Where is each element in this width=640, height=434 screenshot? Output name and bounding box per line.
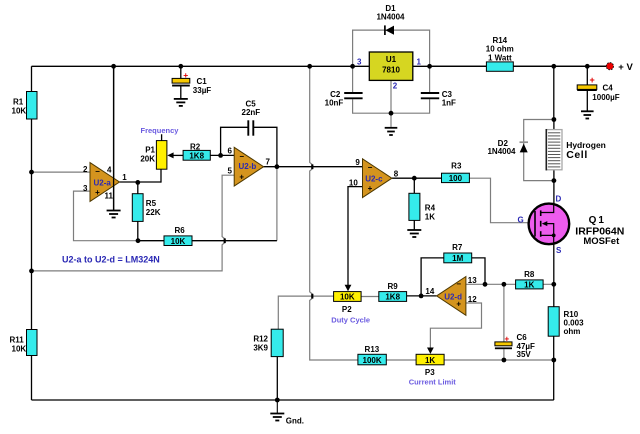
svg-text:R9: R9 (387, 282, 398, 291)
svg-text:R4: R4 (425, 203, 436, 212)
svg-text:−: − (95, 167, 100, 176)
svg-text:10K: 10K (12, 107, 27, 116)
svg-text:3K9: 3K9 (253, 344, 268, 353)
svg-text:R11: R11 (10, 336, 25, 345)
svg-text:−: − (456, 280, 461, 289)
svg-text:R2: R2 (190, 143, 201, 152)
svg-text:12: 12 (468, 295, 477, 304)
svg-text:Q1: Q1 (589, 215, 606, 226)
svg-text:13: 13 (468, 276, 477, 285)
svg-text:100K: 100K (363, 356, 382, 365)
svg-text:R13: R13 (365, 345, 380, 354)
svg-text:R1: R1 (13, 98, 24, 107)
svg-text:1K8: 1K8 (189, 151, 204, 160)
svg-text:1K: 1K (524, 280, 534, 289)
svg-text:P2: P2 (342, 305, 352, 314)
svg-text:33µF: 33µF (193, 86, 212, 95)
svg-text:10K: 10K (171, 237, 186, 246)
svg-text:5: 5 (228, 167, 233, 176)
svg-text:10K: 10K (340, 293, 355, 302)
svg-text:14: 14 (425, 287, 434, 296)
svg-text:U2-a: U2-a (94, 179, 112, 188)
svg-text:11: 11 (105, 191, 114, 200)
svg-text:U2-b: U2-b (239, 162, 257, 171)
svg-text:U2-d: U2-d (444, 292, 462, 301)
svg-text:C1: C1 (197, 77, 208, 86)
svg-text:1 Watt: 1 Watt (488, 53, 512, 62)
svg-text:Frequency: Frequency (141, 126, 180, 135)
svg-text:1: 1 (122, 173, 127, 182)
svg-text:7: 7 (266, 157, 271, 166)
svg-text:100: 100 (449, 174, 463, 183)
svg-text:4: 4 (107, 166, 112, 175)
svg-text:U2-a to U2-d = LM324N: U2-a to U2-d = LM324N (62, 255, 160, 265)
svg-text:+: + (590, 75, 595, 85)
svg-text:10 ohm: 10 ohm (486, 45, 514, 54)
svg-text:+: + (183, 70, 188, 80)
svg-text:R14: R14 (492, 36, 507, 45)
svg-text:R3: R3 (451, 161, 462, 170)
svg-text:2: 2 (83, 165, 88, 174)
svg-text:10nF: 10nF (325, 99, 344, 108)
svg-text:8: 8 (394, 169, 399, 178)
svg-text:−: − (239, 152, 244, 161)
svg-text:U2-c: U2-c (365, 175, 383, 184)
svg-text:22K: 22K (146, 208, 161, 217)
svg-text:3: 3 (357, 58, 362, 67)
svg-text:P1: P1 (145, 145, 155, 154)
svg-text:D1: D1 (385, 4, 396, 13)
svg-text:35V: 35V (517, 350, 532, 359)
svg-text:+: + (368, 184, 373, 193)
svg-text:9: 9 (355, 158, 360, 167)
svg-text:3: 3 (83, 184, 88, 193)
svg-text:D: D (556, 195, 562, 204)
svg-text:10: 10 (349, 178, 358, 187)
svg-text:1000µF: 1000µF (592, 93, 619, 102)
svg-text:Gnd.: Gnd. (286, 416, 304, 425)
svg-text:10K: 10K (12, 345, 27, 354)
svg-text:R8: R8 (524, 270, 535, 279)
svg-text:1: 1 (417, 58, 422, 67)
svg-text:2: 2 (393, 82, 398, 91)
svg-text:Cell: Cell (566, 149, 588, 161)
svg-text:22nF: 22nF (242, 108, 261, 117)
svg-text:ohm: ohm (564, 327, 581, 336)
svg-text:R7: R7 (452, 243, 463, 252)
svg-text:1K: 1K (425, 356, 435, 365)
svg-text:R6: R6 (175, 226, 186, 235)
svg-text:Duty Cycle: Duty Cycle (331, 315, 370, 324)
svg-text:7810: 7810 (382, 66, 400, 75)
svg-text:S: S (556, 246, 562, 255)
svg-text:1nF: 1nF (442, 99, 456, 108)
svg-text:20K: 20K (140, 154, 155, 163)
svg-text:R12: R12 (253, 335, 268, 344)
svg-text:1N4004: 1N4004 (376, 13, 405, 22)
svg-text:R5: R5 (146, 199, 157, 208)
svg-text:Current Limit: Current Limit (409, 377, 457, 386)
svg-text:+: + (505, 334, 510, 343)
svg-text:P3: P3 (425, 368, 435, 377)
svg-text:+: + (239, 173, 244, 182)
svg-text:+: + (95, 188, 100, 197)
svg-text:1K8: 1K8 (385, 293, 400, 302)
svg-text:C4: C4 (603, 83, 614, 92)
svg-text:1M: 1M (452, 254, 463, 263)
svg-text:+ V: + V (618, 62, 633, 73)
svg-text:−: − (368, 163, 373, 172)
svg-text:1K: 1K (425, 212, 435, 221)
svg-text:6: 6 (228, 147, 233, 156)
svg-text:MOSFet: MOSFet (583, 236, 620, 247)
svg-text:1N4004: 1N4004 (487, 147, 516, 156)
svg-text:G: G (518, 216, 524, 225)
svg-text:U1: U1 (386, 55, 397, 64)
